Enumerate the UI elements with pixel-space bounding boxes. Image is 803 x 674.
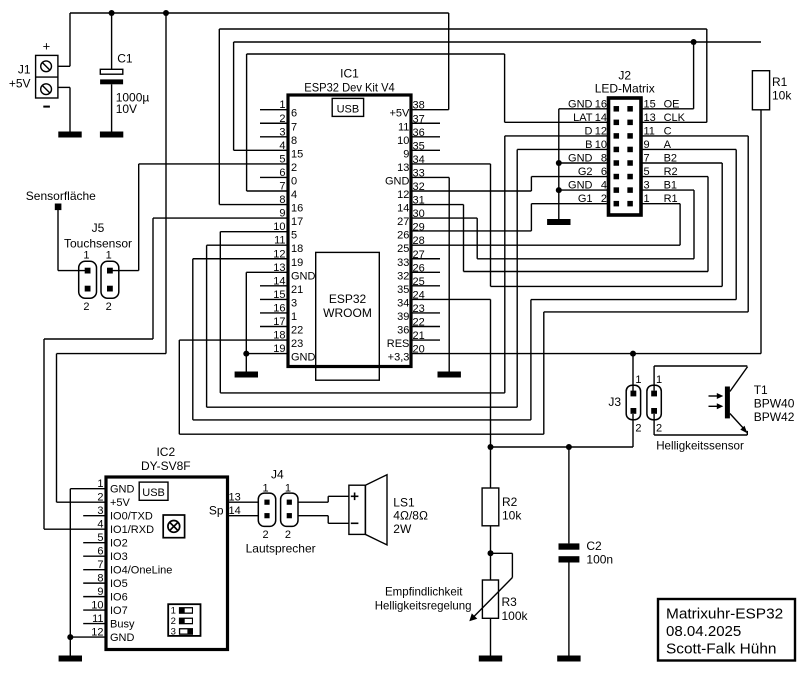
- svg-text:B: B: [585, 139, 592, 151]
- J2 pin 2 label G1: [578, 193, 607, 205]
- J2 pin 1 label R1: [644, 193, 678, 205]
- J2 pin 5 label R2: [644, 166, 678, 178]
- junction divider / R2: [488, 444, 494, 450]
- IC1 pin 23 (39): [397, 303, 440, 323]
- svg-text:22: 22: [291, 325, 303, 337]
- svg-text:G1: G1: [578, 193, 593, 205]
- svg-text:T1: T1: [754, 383, 768, 397]
- IC2 Sp label: [209, 503, 224, 517]
- J2 pin 8 label GND: [568, 153, 607, 165]
- label Helligkeitssensor: [656, 440, 744, 453]
- junction +5V rail / IC2 supply drop: [163, 10, 169, 16]
- svg-text:GND: GND: [110, 632, 135, 644]
- ground below J1: [58, 132, 81, 138]
- IC1 pin 3 (8): [260, 126, 297, 147]
- svg-text:39: 39: [397, 311, 409, 323]
- junction R2 / R3 wiper: [488, 550, 494, 556]
- svg-text:C2: C2: [586, 539, 602, 553]
- IC1 pin 34 (13): [397, 154, 425, 174]
- junction divider / C2: [566, 444, 572, 450]
- J2 pin 11 label C: [644, 125, 672, 137]
- svg-text:Touchsensor: Touchsensor: [64, 237, 132, 251]
- IC1 pin 29 (26): [397, 222, 425, 242]
- IC2 pin 7 (IO4/OneLine): [83, 559, 172, 576]
- svg-text:2W: 2W: [393, 522, 412, 536]
- svg-text:16: 16: [291, 203, 303, 215]
- svg-text:7: 7: [291, 121, 297, 133]
- svg-text:32: 32: [397, 270, 409, 282]
- svg-text:9: 9: [644, 139, 650, 151]
- svg-text:10V: 10V: [116, 102, 137, 116]
- IC1 pin 36 (10): [397, 127, 440, 147]
- IC2 pin 10 (IO7): [83, 600, 128, 617]
- svg-text:BPW40: BPW40: [754, 397, 795, 411]
- svg-text:1: 1: [635, 374, 641, 386]
- IC1 pin 22 (36): [397, 317, 440, 337]
- junction IC1 GND pins: [243, 351, 249, 357]
- svg-text:7: 7: [644, 153, 650, 165]
- IC2 pin 8 (IO5): [83, 573, 128, 590]
- wire IC2 pin14 to J4: [228, 515, 259, 517]
- svg-text:CLK: CLK: [664, 112, 686, 124]
- wire IC1 pin31 GPIO14 to J2 R2: [411, 177, 708, 272]
- svg-text:Helligkeitssensor: Helligkeitssensor: [656, 440, 744, 453]
- svg-text:18: 18: [291, 243, 303, 255]
- J2 pin 10 label B: [585, 139, 607, 151]
- IC1 pin 6 (0): [260, 167, 297, 188]
- IC1 pin 37 (11): [398, 113, 440, 133]
- J2 pin 12 label D: [585, 125, 607, 137]
- J2 pin 7 label B2: [644, 153, 678, 165]
- IC1 pin 16 (1): [260, 302, 297, 323]
- svg-text:GND: GND: [291, 352, 316, 364]
- J2 pin 15 label OE: [644, 98, 680, 110]
- svg-text:4Ω/8Ω: 4Ω/8Ω: [393, 509, 428, 523]
- svg-text:WROOM: WROOM: [323, 306, 372, 320]
- svg-text:0: 0: [291, 175, 297, 187]
- svg-text:J2: J2: [618, 69, 631, 83]
- svg-text:15: 15: [644, 98, 656, 110]
- junction +3,3 / J3: [630, 351, 636, 357]
- svg-text:Sp: Sp: [209, 503, 224, 517]
- svg-text:10: 10: [397, 135, 409, 147]
- wire IC1 pin11 GPIO18 to J2 B: [207, 149, 610, 407]
- IC1 pin 32 (12): [397, 181, 425, 201]
- svg-text:Lautsprecher: Lautsprecher: [246, 542, 316, 556]
- svg-text:3: 3: [291, 297, 297, 309]
- IC2 pin 1 (GND): [97, 478, 134, 495]
- IC1 pin 27 (33): [397, 249, 440, 269]
- svg-text:12: 12: [397, 189, 409, 201]
- IC1 pin 26 (32): [397, 262, 440, 282]
- svg-text:33: 33: [397, 257, 409, 269]
- svg-text:21: 21: [291, 284, 303, 296]
- IC1 pin 1 (6): [260, 99, 297, 120]
- svg-text:USB: USB: [142, 487, 165, 499]
- J2 pin 6 label G2: [578, 166, 607, 178]
- wire J2 GND pins to ground: [559, 109, 610, 219]
- svg-text:GND: GND: [110, 484, 135, 496]
- svg-text:ESP32 Dev Kit V4: ESP32 Dev Kit V4: [304, 81, 395, 95]
- wire J1 plus terminal to +5V rail: [58, 13, 70, 66]
- J2 pin 14 label LAT: [573, 112, 607, 124]
- IC1 pin 24 (34): [397, 289, 425, 309]
- svg-text:5: 5: [644, 166, 650, 178]
- svg-text:OE: OE: [664, 98, 680, 110]
- IC1 pin 4 (15): [279, 140, 303, 161]
- svg-text:1: 1: [263, 482, 269, 494]
- resistor R1 10k: [752, 71, 792, 110]
- IC1 pin 15 (3): [260, 289, 297, 310]
- J2 pin 9 label A: [644, 139, 672, 151]
- J2 pin 3 label B1: [644, 180, 678, 192]
- svg-text:BPW42: BPW42: [754, 410, 795, 424]
- ground below IC1 left: [235, 372, 258, 378]
- svg-text:10k: 10k: [772, 89, 792, 103]
- IC2 pin 4 (IO1/RXD): [97, 519, 154, 536]
- svg-text:2: 2: [291, 162, 297, 174]
- junction J2 GND8: [556, 160, 562, 166]
- svg-text:26: 26: [397, 230, 409, 242]
- svg-text:29: 29: [413, 222, 425, 234]
- svg-text:IO4/OneLine: IO4/OneLine: [110, 564, 172, 576]
- svg-text:IO0/TXD: IO0/TXD: [110, 510, 153, 522]
- junction J2 GND4: [556, 187, 562, 193]
- svg-text:100n: 100n: [586, 553, 613, 567]
- title block: [658, 599, 795, 661]
- svg-text:10k: 10k: [502, 509, 522, 523]
- svg-text:IO3: IO3: [110, 551, 128, 563]
- speaker LS1 4/8 Ohm 2W: [349, 475, 428, 545]
- svg-text:R3: R3: [502, 595, 518, 609]
- capacitor C2 100n: [559, 447, 614, 656]
- svg-text:GND: GND: [291, 270, 316, 282]
- wire IC1 pin8 GPIO16 to J2 CLK via top: [219, 29, 707, 205]
- wire IC1 pin18 GPIO23 to J2 C: [179, 136, 748, 434]
- node Sensorflaeche pad: [26, 189, 96, 210]
- IC IC2 DY-SV8F titles: [141, 445, 191, 473]
- J2 pin 4 label GND: [568, 180, 607, 192]
- svg-text:4: 4: [97, 519, 103, 531]
- svg-text:1: 1: [171, 606, 176, 617]
- svg-text:3: 3: [171, 627, 176, 638]
- svg-text:Sensorfläche: Sensorfläche: [26, 189, 96, 203]
- wire +5V rail: [70, 12, 449, 14]
- svg-text:13: 13: [644, 112, 656, 124]
- ground below C1: [100, 132, 123, 138]
- svg-text:ESP32: ESP32: [329, 292, 367, 306]
- wire IC1 pin10 GPIO5 to J2 D: [220, 136, 610, 393]
- wire IC1 pin9 GPIO17 TXD to IC2 RXD: [44, 218, 288, 529]
- IC1 pin 19 (GND): [273, 343, 315, 364]
- svg-text:B1: B1: [664, 180, 677, 192]
- IC2 pin 14 label: [229, 505, 241, 517]
- IC2 DIP switch: [168, 604, 200, 637]
- svg-text:13: 13: [397, 162, 409, 174]
- svg-text:C: C: [664, 125, 672, 137]
- connector J1 +5V screw terminal: [9, 39, 58, 108]
- connector J4 Lautsprecher: [246, 468, 316, 556]
- svg-text:2: 2: [171, 616, 176, 627]
- wire IC1 pin7 GPIO4 to J2 LAT: [247, 54, 610, 191]
- ground below IC2: [59, 656, 82, 662]
- svg-text:Empfindlichkeit: Empfindlichkeit: [385, 586, 463, 599]
- svg-text:GND: GND: [385, 175, 410, 187]
- svg-text:34: 34: [397, 297, 409, 309]
- IC1 pin 30 (27): [397, 208, 425, 228]
- wire IC1 pin38 +5V to rail: [411, 13, 449, 110]
- svg-text:9: 9: [403, 148, 409, 160]
- wire IC1 pin30 GPIO27 to J2 B1: [411, 190, 694, 259]
- svg-text:8: 8: [291, 135, 297, 147]
- potentiometer R3 100k: [469, 553, 528, 655]
- IC1 pin 18 (23): [273, 330, 303, 351]
- connector J3 brightness sensor: [608, 374, 662, 435]
- junction OE line / R1: [691, 39, 697, 45]
- svg-text:J5: J5: [92, 221, 105, 235]
- svg-text:R1: R1: [772, 75, 788, 89]
- svg-text:Helligkeitsregelung: Helligkeitsregelung: [375, 600, 472, 613]
- svg-text:17: 17: [291, 216, 303, 228]
- svg-text:11: 11: [398, 121, 409, 133]
- svg-text:2: 2: [83, 301, 89, 313]
- svg-text:2: 2: [285, 529, 291, 541]
- IC U1 label IC1 ESP32 Dev Kit V4 titles: [304, 67, 395, 95]
- IC2 pin 2 (+5V): [97, 492, 130, 509]
- svg-text:11: 11: [644, 125, 655, 137]
- IC2 pin 3 (IO0/TXD): [83, 505, 153, 522]
- wire sensor divider node: [491, 414, 634, 447]
- IC1 pin 20 (+3,3): [388, 344, 425, 364]
- svg-text:IC1: IC1: [340, 67, 359, 81]
- svg-text:+5V: +5V: [390, 108, 411, 120]
- wire J4 to LS1 plus: [298, 496, 349, 502]
- svg-text:+5V: +5V: [9, 77, 31, 91]
- IC2 pin 5 (IO2): [83, 532, 128, 549]
- IC1 pin 28 (25): [397, 235, 425, 255]
- wire J4 to LS1 minus: [298, 516, 349, 524]
- svg-text:14: 14: [595, 112, 607, 124]
- IC1 pin 21 (RES): [387, 330, 440, 350]
- wire +5V to IC2 pin2: [57, 13, 167, 502]
- IC1 pin 17 (22): [260, 316, 303, 337]
- junction IC2 GND: [67, 634, 73, 640]
- svg-text:LAT: LAT: [573, 112, 593, 124]
- IC1 pin 12 (19): [273, 248, 303, 269]
- svg-text:J4: J4: [271, 468, 284, 482]
- svg-text:IO2: IO2: [110, 537, 128, 549]
- resistor R2 10k: [482, 447, 522, 553]
- svg-text:+5V: +5V: [110, 497, 131, 509]
- svg-text:1: 1: [644, 193, 650, 205]
- svg-text:J1: J1: [18, 63, 31, 77]
- svg-text:+3,3: +3,3: [388, 352, 410, 364]
- module ESP32 WROOM box: [316, 252, 380, 380]
- svg-text:5: 5: [291, 230, 297, 242]
- wire J5 pin1 to IC1 pin5 GPIO2: [113, 164, 289, 271]
- svg-text:3: 3: [644, 180, 650, 192]
- ground below IC1 right: [438, 372, 461, 378]
- svg-text:R2: R2: [664, 166, 678, 178]
- wire IC1 pin33 GND to ground: [411, 177, 449, 371]
- svg-text:IO6: IO6: [110, 591, 128, 603]
- svg-text:10: 10: [595, 139, 607, 151]
- IC2 pin 6 (IO3): [83, 546, 128, 563]
- wire J1 minus terminal to ground: [58, 87, 70, 131]
- wire IC1 pin13 pin19 GND: [246, 272, 288, 371]
- IC2 amplifier symbol: [163, 515, 184, 538]
- svg-text:+: +: [43, 39, 51, 54]
- svg-text:LED-Matrix: LED-Matrix: [595, 82, 655, 96]
- svg-text:Scott-Falk Hühn: Scott-Falk Hühn: [666, 641, 777, 658]
- IC1 pin 31 (14): [397, 195, 425, 215]
- svg-text:R1: R1: [664, 193, 678, 205]
- svg-text:2: 2: [601, 193, 607, 205]
- svg-text:B2: B2: [664, 153, 677, 165]
- svg-text:2: 2: [656, 423, 662, 435]
- svg-text:USB: USB: [337, 103, 360, 115]
- svg-text:A: A: [664, 139, 672, 151]
- label Empfindlichkeit Helligkeitsregelung: [375, 586, 472, 613]
- svg-text:D: D: [585, 125, 593, 137]
- wire IC1 pin12 GPIO19 to J2 A: [193, 149, 736, 419]
- IC1 pin 10 (5): [273, 221, 297, 242]
- svg-text:RES: RES: [387, 338, 410, 350]
- svg-text:1: 1: [656, 374, 662, 386]
- IC1 pin 9 (17): [279, 208, 303, 229]
- svg-text:IO5: IO5: [110, 578, 128, 590]
- svg-text:2: 2: [106, 301, 112, 313]
- wire IC1 pin24 GPIO34 to light sensor divider: [411, 299, 491, 447]
- svg-text:2: 2: [635, 423, 641, 435]
- svg-text:100k: 100k: [502, 609, 529, 623]
- IC1 pin 13 (GND): [273, 262, 315, 283]
- ground below C2: [557, 656, 580, 662]
- connector J2 LED-Matrix header: [595, 69, 655, 216]
- wire IC1 pin28 GPIO25 to J2 R1: [411, 204, 680, 246]
- svg-text:Matrixuhr-ESP32: Matrixuhr-ESP32: [666, 606, 783, 623]
- connector J5 Touchsensor: [64, 221, 132, 313]
- svg-text:1: 1: [291, 311, 297, 323]
- svg-text:J3: J3: [608, 395, 621, 409]
- IC2 body outline: [106, 477, 228, 650]
- wire IC2 pin13 to J4: [228, 501, 259, 503]
- IC1 pin 11 (18): [274, 235, 303, 256]
- svg-text:2: 2: [263, 529, 269, 541]
- svg-text:IO7: IO7: [110, 605, 128, 617]
- svg-text:Busy: Busy: [110, 618, 135, 630]
- IC1 pin 8 (16): [279, 194, 303, 215]
- ground below R3: [479, 656, 502, 662]
- svg-text:35: 35: [397, 284, 409, 296]
- IC2 pin 12 (GND): [91, 627, 134, 644]
- svg-text:27: 27: [397, 216, 409, 228]
- IC2 USB box: [139, 482, 168, 500]
- IC1 pin 5 (2): [279, 153, 297, 174]
- IC1 pin 7 (4): [279, 181, 297, 202]
- svg-text:4: 4: [291, 189, 297, 201]
- svg-text:C1: C1: [117, 52, 133, 66]
- IC1 pin 14 (21): [260, 275, 303, 296]
- J2 pin 13 label CLK: [644, 112, 686, 124]
- svg-text:19: 19: [291, 257, 303, 269]
- junction +5V rail / C1: [109, 10, 115, 16]
- svg-text:14: 14: [397, 203, 409, 215]
- wire IC1 pin29 GPIO26 to J2 G1: [411, 204, 610, 231]
- IC1 USB box: [332, 98, 363, 116]
- svg-text:36: 36: [397, 325, 409, 337]
- svg-text:15: 15: [291, 148, 303, 160]
- svg-text:12: 12: [595, 125, 607, 137]
- IC1 pin 33 (GND): [385, 167, 425, 187]
- svg-text:R2: R2: [502, 495, 518, 509]
- wire IC1 pin20 +3,3 to J3 and R1: [411, 110, 761, 391]
- svg-text:G2: G2: [578, 166, 593, 178]
- IC1 pin 38 (+5V): [390, 100, 425, 120]
- IC1 body outline: [288, 95, 411, 367]
- svg-text:23: 23: [291, 338, 303, 350]
- svg-text:1: 1: [83, 250, 89, 262]
- transistor T1 BPW40 phototransistor: [654, 366, 795, 435]
- svg-text:IO1/RXD: IO1/RXD: [110, 524, 154, 536]
- svg-text:1: 1: [106, 250, 112, 262]
- IC1 pin 2 (7): [260, 113, 297, 134]
- svg-text:DY-SV8F: DY-SV8F: [141, 459, 191, 473]
- ground below J2: [547, 219, 570, 225]
- svg-text:6: 6: [601, 166, 607, 178]
- wire sensor pad to J5 pin1: [58, 210, 85, 271]
- svg-text:1: 1: [285, 482, 291, 494]
- svg-text:IC2: IC2: [156, 445, 175, 459]
- wire IC1 pin4 GPIO15 to J2 OE via top: [234, 42, 761, 150]
- J2 pin 16 label GND: [568, 98, 607, 110]
- IC2 pin 9 (IO6): [83, 586, 128, 603]
- capacitor C1 1000u 10V: [100, 13, 149, 132]
- svg-text:6: 6: [291, 108, 297, 120]
- svg-text:LS1: LS1: [393, 496, 415, 510]
- wire IC1 pin34 GPIO13 to J2 B2: [411, 163, 722, 286]
- svg-text:08.04.2025: 08.04.2025: [666, 623, 741, 640]
- IC2 pin 13 label: [229, 492, 241, 504]
- IC1 pin 25 (35): [397, 276, 440, 296]
- IC1 pin 35 (9): [403, 140, 440, 160]
- svg-text:25: 25: [397, 243, 409, 255]
- wire IC2 pin1 pin12 GND: [70, 489, 106, 656]
- wire IC1 pin32 GPIO12 to J2 G2: [411, 177, 610, 191]
- IC2 pin 11 (Busy): [83, 613, 135, 630]
